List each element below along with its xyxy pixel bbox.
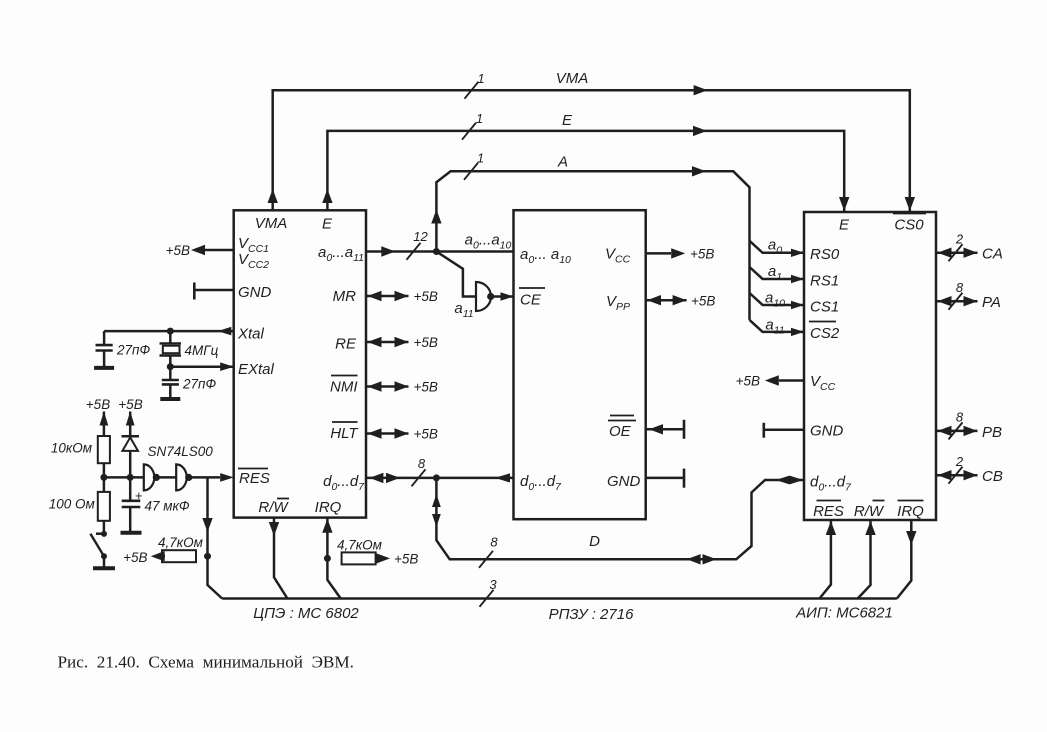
pin label CS1: [810, 299, 839, 316]
label 1 (A width): [477, 151, 484, 166]
label 27пФ (C2): [182, 376, 216, 391]
resistor R2 100 Ohm box: [98, 492, 110, 521]
wire R1 to node: [103, 463, 106, 477]
svg-text:R/W: R/W: [258, 499, 289, 516]
pin label GND (EPROM): [607, 473, 641, 490]
wire Vpp to +5V: [646, 295, 687, 305]
wire a1 to PIA: [750, 267, 805, 283]
wire PA port: [936, 296, 978, 306]
label VMA bus: [556, 70, 589, 87]
svg-text:27пФ: 27пФ: [116, 342, 150, 357]
label +5V (R4): [123, 550, 147, 565]
slash 3 width: [480, 590, 494, 607]
wire VMA bus: [268, 85, 916, 212]
svg-text:4,7кОм: 4,7кОм: [158, 535, 203, 550]
wire node to R2: [103, 477, 106, 492]
pin label Vcc1: [238, 235, 269, 255]
svg-text:E: E: [839, 217, 850, 234]
CPU block U1 (MC6802): [234, 210, 366, 517]
svg-text:4,7кОм: 4,7кОм: [337, 538, 382, 553]
wire HLT to +5V: [366, 428, 409, 438]
svg-text:MR: MR: [333, 288, 356, 305]
PIA block U3 (MC6821): [804, 212, 936, 520]
pin label CE: [519, 288, 545, 309]
label +5V (VD1 top): [118, 397, 142, 412]
label A bus: [557, 154, 568, 171]
inverter gate a11: [476, 282, 491, 311]
node IRQ pullup junction: [324, 555, 331, 562]
ground (C2): [160, 397, 180, 401]
svg-text:2: 2: [955, 232, 964, 247]
svg-text:IRQ: IRQ: [897, 503, 924, 520]
slash 8 width (D bus): [479, 551, 493, 568]
label a1: [768, 263, 782, 283]
svg-text:CA: CA: [982, 246, 1003, 263]
svg-text:3: 3: [489, 577, 497, 592]
label 100 Ом (R2): [49, 497, 95, 512]
svg-text:+: +: [135, 488, 143, 503]
capacitor C1 27pF: [96, 331, 113, 366]
label +5V (Vcc CPU): [166, 243, 190, 258]
svg-text:1: 1: [476, 111, 483, 126]
wire Xtal: [104, 327, 234, 336]
svg-text:1: 1: [477, 151, 484, 166]
svg-text:GND: GND: [810, 423, 844, 440]
svg-text:CE: CE: [520, 292, 542, 309]
label a10: [765, 290, 785, 310]
svg-text:1: 1: [477, 71, 484, 86]
pin label GND (CPU): [238, 284, 272, 301]
pin label E (CPU): [322, 216, 333, 233]
label +5V (Vcc EPROM): [690, 247, 714, 262]
svg-text:GND: GND: [238, 284, 272, 301]
wire GND stub EPROM: [646, 469, 684, 488]
wire Vcc CPU to +5V: [191, 245, 234, 255]
svg-text:+5В: +5В: [414, 289, 438, 304]
wire R/W to PIA: [858, 520, 876, 599]
wire RES to PIA: [820, 520, 837, 599]
ground (C3): [121, 531, 142, 535]
wire a11 to gate: [436, 252, 476, 297]
svg-text:4МГц: 4МГц: [185, 343, 219, 358]
node Xtal junction: [167, 328, 174, 335]
svg-text:+5В: +5В: [736, 374, 760, 389]
pin label Vpp: [606, 293, 630, 313]
label +5V (R1 top): [86, 397, 110, 412]
gate G2 (74LS00): [176, 464, 187, 490]
pin label RES (PIA): [813, 501, 844, 521]
label 2 (CB width): [955, 454, 964, 469]
svg-text:RES: RES: [813, 503, 844, 520]
slash PB width: [949, 422, 963, 439]
label 12 (bus width): [413, 229, 428, 244]
crystal ZQ1 4MHz: [160, 331, 182, 367]
node address bus junction: [433, 248, 440, 255]
wire CB port: [936, 470, 978, 480]
wire R2 to switch: [103, 521, 106, 534]
svg-text:GND: GND: [607, 473, 641, 490]
svg-text:R/W: R/W: [854, 503, 885, 520]
label SN74LS00: [148, 444, 214, 459]
wire GND stub CPU: [194, 283, 233, 300]
pin label a0...a10 (EPROM): [520, 246, 571, 266]
wire a0 to PIA: [750, 241, 805, 257]
svg-text:12: 12: [413, 229, 428, 244]
label PA: [982, 294, 1001, 311]
wire G2 to RES pin: [189, 473, 234, 482]
wire RES junction down: [202, 477, 222, 598]
label 8 (data width): [418, 456, 426, 471]
label 4МГц (ZQ1): [185, 343, 219, 358]
wire CA port: [936, 248, 978, 258]
wire IRQ to CPU: [322, 518, 341, 599]
svg-text:ЦПЭ : МС 6802: ЦПЭ : МС 6802: [253, 605, 359, 622]
svg-text:HLT: HLT: [330, 425, 359, 442]
label 8 (PB width): [956, 410, 964, 425]
label D bus: [589, 533, 600, 550]
ground (C1): [94, 366, 114, 370]
label +5V (RE): [414, 335, 438, 350]
svg-text:Рис. 21.40. Схема минимальн: Рис. 21.40. Схема минимальной ЭВМ.: [58, 653, 354, 672]
pin label IRQ (PIA): [897, 501, 924, 521]
caption: [58, 653, 354, 672]
wire E bus: [322, 126, 849, 212]
svg-text:8: 8: [490, 535, 498, 550]
wire EXtal: [170, 362, 233, 371]
label +5V (MR): [414, 289, 438, 304]
label CPU name: [253, 605, 359, 622]
slash PA width: [949, 293, 963, 310]
svg-text:RS1: RS1: [810, 273, 839, 290]
wire OE stub: [646, 420, 684, 439]
wire GND stub PIA: [764, 423, 804, 438]
slash 12 width: [407, 243, 421, 260]
label +5V (NMI): [414, 380, 438, 395]
label E bus: [562, 112, 573, 129]
pin label d0...d7 (CPU): [323, 473, 365, 493]
svg-text:A: A: [557, 154, 568, 171]
pin label E (PIA): [839, 217, 850, 234]
label 4,7кОм (R3): [337, 538, 382, 553]
wire PB port: [936, 426, 978, 436]
wire reset node link: [104, 476, 144, 479]
pin label Vcc2: [238, 251, 269, 271]
svg-text:EXtal: EXtal: [238, 361, 275, 378]
svg-text:8: 8: [418, 456, 426, 471]
svg-text:+5В: +5В: [123, 550, 147, 565]
svg-text:VMA: VMA: [556, 70, 589, 87]
svg-text:E: E: [322, 216, 333, 233]
svg-text:8: 8: [956, 280, 964, 295]
wire d0..d7 CPU to junction: [366, 473, 514, 483]
resistor R1 10k box: [98, 436, 110, 463]
pin label EXtal: [238, 361, 275, 378]
svg-text:+5В: +5В: [118, 397, 142, 412]
node RES pullup junction: [204, 553, 211, 560]
pin label RS0: [810, 246, 840, 263]
label CA: [982, 246, 1003, 263]
svg-text:АИП: МС6821: АИП: МС6821: [795, 605, 893, 622]
label 27пФ (C1): [116, 342, 150, 357]
svg-text:РПЗУ : 2716: РПЗУ : 2716: [549, 606, 635, 623]
svg-text:10кОм: 10кОм: [51, 441, 92, 456]
pin label R/W (PIA): [854, 501, 885, 521]
label a11: [765, 317, 784, 337]
svg-text:Xtal: Xtal: [237, 326, 265, 343]
svg-text:NMI: NMI: [330, 379, 358, 396]
svg-text:IRQ: IRQ: [315, 499, 342, 516]
wire bottom control bus: [222, 597, 897, 600]
node gate output bubble: [487, 293, 494, 300]
label 4,7кОм (R4): [158, 535, 203, 550]
wire Vcc PIA to +5V: [765, 375, 804, 385]
pin label OE: [608, 416, 636, 441]
pin label IRQ (CPU): [315, 499, 342, 516]
pin label a0...a11: [318, 244, 364, 264]
slash E width 1: [462, 123, 476, 140]
label a0...a10 on wire: [465, 232, 512, 252]
label CB: [982, 468, 1003, 485]
label 47 мкФ (C3): [145, 498, 190, 513]
label +5V (HLT): [414, 427, 438, 442]
wire A bus: [431, 166, 749, 320]
label 8 (PA width): [956, 280, 964, 295]
node G1 output: [153, 474, 160, 481]
label 1 (VMA width): [477, 71, 484, 86]
svg-text:100 Ом: 100 Ом: [49, 497, 95, 512]
pin label VMA: [255, 215, 288, 232]
svg-text:+5В: +5В: [86, 397, 110, 412]
pin label d0...d7 (EPROM): [520, 473, 562, 493]
label +5V (Vcc PIA): [736, 374, 760, 389]
switch S1: [90, 531, 107, 567]
wire RE to +5V: [366, 337, 409, 347]
pin label CS0: [893, 214, 926, 234]
svg-text:+5В: +5В: [414, 335, 438, 350]
capacitor C3 47uF: [122, 477, 143, 531]
wire d0..d7 into EPROM arrow: [495, 473, 510, 482]
resistor R4 4.7k box: [162, 550, 196, 562]
pin label NMI: [330, 376, 358, 396]
pin label d0...d7 (PIA): [810, 474, 852, 494]
slash CB width: [949, 467, 963, 484]
pin label R/W (CPU): [258, 499, 289, 517]
slash 8 width (data): [412, 469, 426, 486]
pin label Vcc (EPROM): [605, 246, 631, 266]
wire +5V to R1: [100, 412, 109, 437]
slash VMA width 1: [465, 82, 479, 99]
capacitor C2 27pF: [162, 367, 179, 398]
label +5V (Vpp): [691, 293, 715, 308]
wire a10 to PIA: [750, 293, 805, 309]
pin label GND (PIA): [810, 423, 844, 440]
node reset RC node mid: [127, 474, 134, 481]
pin label RS1: [810, 273, 839, 290]
svg-text:E: E: [562, 112, 573, 129]
svg-text:2: 2: [955, 454, 964, 469]
svg-text:8: 8: [956, 410, 964, 425]
svg-text:PB: PB: [982, 424, 1002, 441]
pin label MR: [333, 288, 356, 305]
svg-text:CS0: CS0: [894, 217, 924, 234]
label 8 (D bus width): [490, 535, 498, 550]
wire MR to +5V: [366, 291, 409, 301]
svg-text:47 мкФ: 47 мкФ: [145, 498, 190, 513]
pin label RES (CPU): [238, 469, 270, 488]
svg-text:RS0: RS0: [810, 246, 840, 263]
svg-text:SN74LS00: SN74LS00: [148, 444, 214, 459]
label 10кОм (R1): [51, 441, 92, 456]
svg-text:D: D: [589, 533, 600, 550]
label 3 (bus width): [489, 577, 497, 592]
ground (switch): [93, 566, 115, 570]
diode VD1: [122, 436, 140, 451]
svg-text:RE: RE: [335, 336, 357, 353]
wire IRQ from PIA: [897, 520, 917, 599]
wire G1 to G2: [156, 476, 176, 479]
svg-text:RES: RES: [239, 470, 270, 487]
wire gate to CE: [491, 292, 514, 300]
svg-text:+5В: +5В: [414, 427, 438, 442]
label 1 (E width): [476, 111, 483, 126]
wire R3 to +5V: [376, 553, 390, 563]
svg-text:+5В: +5В: [394, 552, 418, 567]
pin label CS2: [809, 322, 840, 343]
svg-text:+5В: +5В: [691, 293, 715, 308]
node data bus junction: [433, 474, 440, 481]
pin label Xtal: [237, 326, 265, 343]
svg-text:+5В: +5В: [414, 380, 438, 395]
label 2 (CA width): [955, 232, 964, 247]
svg-text:PA: PA: [982, 294, 1001, 311]
svg-text:+5В: +5В: [166, 243, 190, 258]
pin label Vcc (PIA): [810, 373, 836, 393]
label +5V (R3): [394, 552, 418, 567]
label PB: [982, 424, 1002, 441]
label a0: [768, 237, 782, 257]
svg-text:VMA: VMA: [255, 215, 288, 232]
svg-text:+5В: +5В: [690, 247, 714, 262]
svg-text:CS2: CS2: [810, 325, 840, 342]
node EXtal junction: [167, 363, 174, 370]
wire +5V to diode: [126, 412, 135, 478]
gate G1 (74LS00): [144, 464, 155, 490]
svg-text:CS1: CS1: [810, 299, 839, 316]
slash A width 1: [464, 163, 478, 180]
svg-text:27пФ: 27пФ: [182, 376, 216, 391]
wire D bus: [432, 476, 804, 565]
wire a0..a11 CPU to EPROM: [366, 246, 514, 256]
svg-text:OE: OE: [609, 423, 632, 440]
svg-text:CB: CB: [982, 468, 1003, 485]
label a11: [454, 300, 473, 320]
resistor R3 4.7k box: [342, 552, 376, 564]
slash CA width: [949, 244, 963, 261]
EPROM block U2 (2716): [514, 210, 646, 519]
label PIA name: [795, 605, 893, 622]
pin label HLT: [330, 422, 359, 442]
node G2 output: [185, 474, 192, 481]
node reset RC node left: [100, 474, 107, 481]
wire NMI to +5V: [366, 381, 409, 391]
wire R/W from CPU: [269, 518, 288, 599]
wire R4 to +5V: [151, 551, 165, 561]
wire Vcc EPROM to +5V: [646, 248, 686, 258]
pin label RE: [335, 336, 357, 353]
label EPROM name: [549, 606, 635, 623]
wire a11 to PIA: [750, 320, 805, 336]
